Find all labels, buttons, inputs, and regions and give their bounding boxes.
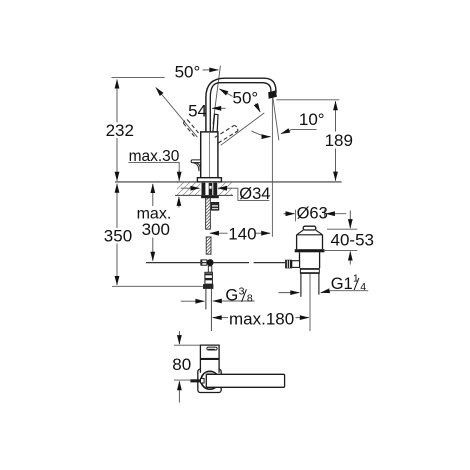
supply hose right edge / extension <box>210 289 212 331</box>
svg-text:189: 189 <box>325 131 353 150</box>
wire: deck bottom line <box>175 194 233 196</box>
spout outlet tip (dark) <box>268 90 277 98</box>
plan view: handle hub circle <box>201 371 219 389</box>
dim O34 right arrow and label leader <box>218 187 231 189</box>
G3/8 nut <box>203 284 213 289</box>
supply hose left edge <box>205 289 207 310</box>
svg-text:G: G <box>225 286 238 304</box>
shank right wall <box>213 183 217 195</box>
svg-text:80: 80 <box>172 355 191 374</box>
10deg arc arrow <box>252 131 271 137</box>
svg-text:232: 232 <box>106 121 134 140</box>
tilted lever axis (left) with arrow <box>156 88 198 138</box>
svg-text:10°: 10° <box>299 110 325 129</box>
spout stream 10 deg line <box>273 98 279 141</box>
dim 140 arrows <box>210 232 228 234</box>
base flange <box>197 178 221 182</box>
label G1 1/4 with leader <box>278 292 299 294</box>
svg-text:40-53: 40-53 <box>331 230 374 249</box>
dim 80 extension lines <box>174 344 200 346</box>
handle axis line <box>213 66 221 125</box>
dim 40-53 extension lines <box>327 228 357 230</box>
drain gasket flange (dark) <box>295 249 325 252</box>
threaded stud upper segment <box>206 198 211 229</box>
50deg arrow to handle axis <box>203 69 219 71</box>
body centre line <box>209 132 211 178</box>
pop-up pull knob tab on body <box>191 160 201 163</box>
dashed lever left position <box>183 120 198 137</box>
pull knob curves <box>193 163 200 172</box>
plan view: spout slot <box>207 347 217 350</box>
plan view: lever bar <box>206 374 284 387</box>
backnut bar under deck <box>201 195 219 198</box>
svg-text:G1: G1 <box>331 275 353 293</box>
svg-text:1: 1 <box>353 272 359 284</box>
spout inner contour <box>210 83 271 132</box>
wire: deck top surface line <box>115 181 342 183</box>
shank left wall <box>202 183 206 195</box>
drain body walls <box>300 252 320 268</box>
dim 189 line with arrows <box>335 101 337 131</box>
svg-text:8: 8 <box>247 293 253 305</box>
plan view: pull rod <box>190 379 201 382</box>
dim 80 arrows <box>178 331 180 344</box>
dim 189 top extension line <box>276 99 339 101</box>
pop-up horizontal rod segment B <box>214 262 249 264</box>
svg-text:140: 140 <box>228 224 256 243</box>
handle lever (closed position) <box>213 114 218 132</box>
dim max300 line with arrows <box>152 184 154 206</box>
side nut piece <box>211 202 219 210</box>
supply connector cylinder <box>205 272 213 284</box>
dashed lever right position <box>215 125 238 143</box>
dim 232 top extension line <box>112 76 165 78</box>
drain bottom cap <box>300 268 320 270</box>
dim O34 left arrow <box>181 187 200 189</box>
dim 350 bottom extension line <box>112 285 203 287</box>
svg-text:350: 350 <box>104 226 132 245</box>
drain plug cap <box>303 226 316 230</box>
drain tailpipe right wall <box>318 274 320 295</box>
plan view: dark divider band <box>200 358 219 360</box>
drain tailpipe left wall <box>300 274 302 297</box>
shank through deck (white clearing) <box>200 183 218 196</box>
pull rod lower stem <box>208 266 212 272</box>
drain knob stem <box>292 261 300 268</box>
50deg arrow to lever axis <box>256 104 261 112</box>
plan view: body column <box>200 345 219 373</box>
drain: O63 extension left <box>295 210 297 222</box>
pop-up rod ball joint <box>207 259 214 266</box>
shank centre stem <box>209 183 213 195</box>
dim 232 line with arrows <box>116 80 118 123</box>
svg-text:300: 300 <box>142 220 170 239</box>
svg-text:54: 54 <box>188 101 207 120</box>
50deg arrow to spout corner <box>219 89 232 97</box>
dim max180 arrows <box>213 317 228 319</box>
drain pop-up knob (ribbed) <box>285 260 292 269</box>
faucet body <box>201 132 218 178</box>
svg-text:50°: 50° <box>233 88 259 107</box>
drain: O63 extension right <box>324 210 326 219</box>
tilted lever axis (right) <box>221 113 265 145</box>
spout vertical extension line (reach reference) <box>271 98 273 237</box>
pop-up horizontal rod segment C <box>254 262 286 264</box>
dim 350 line with arrows <box>116 184 118 228</box>
svg-text:Ø34: Ø34 <box>239 185 270 203</box>
svg-text:max.180: max.180 <box>229 310 294 329</box>
pop-up rod clamp <box>201 260 207 265</box>
deck hatch section <box>177 183 232 195</box>
dim O63 arrows <box>284 213 295 215</box>
dim 40-53 arrows <box>349 211 351 229</box>
spout outer contour <box>206 78 276 132</box>
svg-text:50°: 50° <box>175 63 201 82</box>
svg-text:Ø63: Ø63 <box>297 205 328 223</box>
drain centre line extension <box>309 274 311 331</box>
plan view: outer base plate <box>198 369 221 392</box>
drain flare cone <box>297 230 323 235</box>
threaded stud lower segment <box>206 237 211 254</box>
plan view: hub gray shading <box>204 372 217 375</box>
pop-up horizontal rod segment A <box>146 262 207 264</box>
label G3/8 with leader arrows <box>181 300 205 302</box>
drain upper cylinder walls <box>297 235 323 249</box>
